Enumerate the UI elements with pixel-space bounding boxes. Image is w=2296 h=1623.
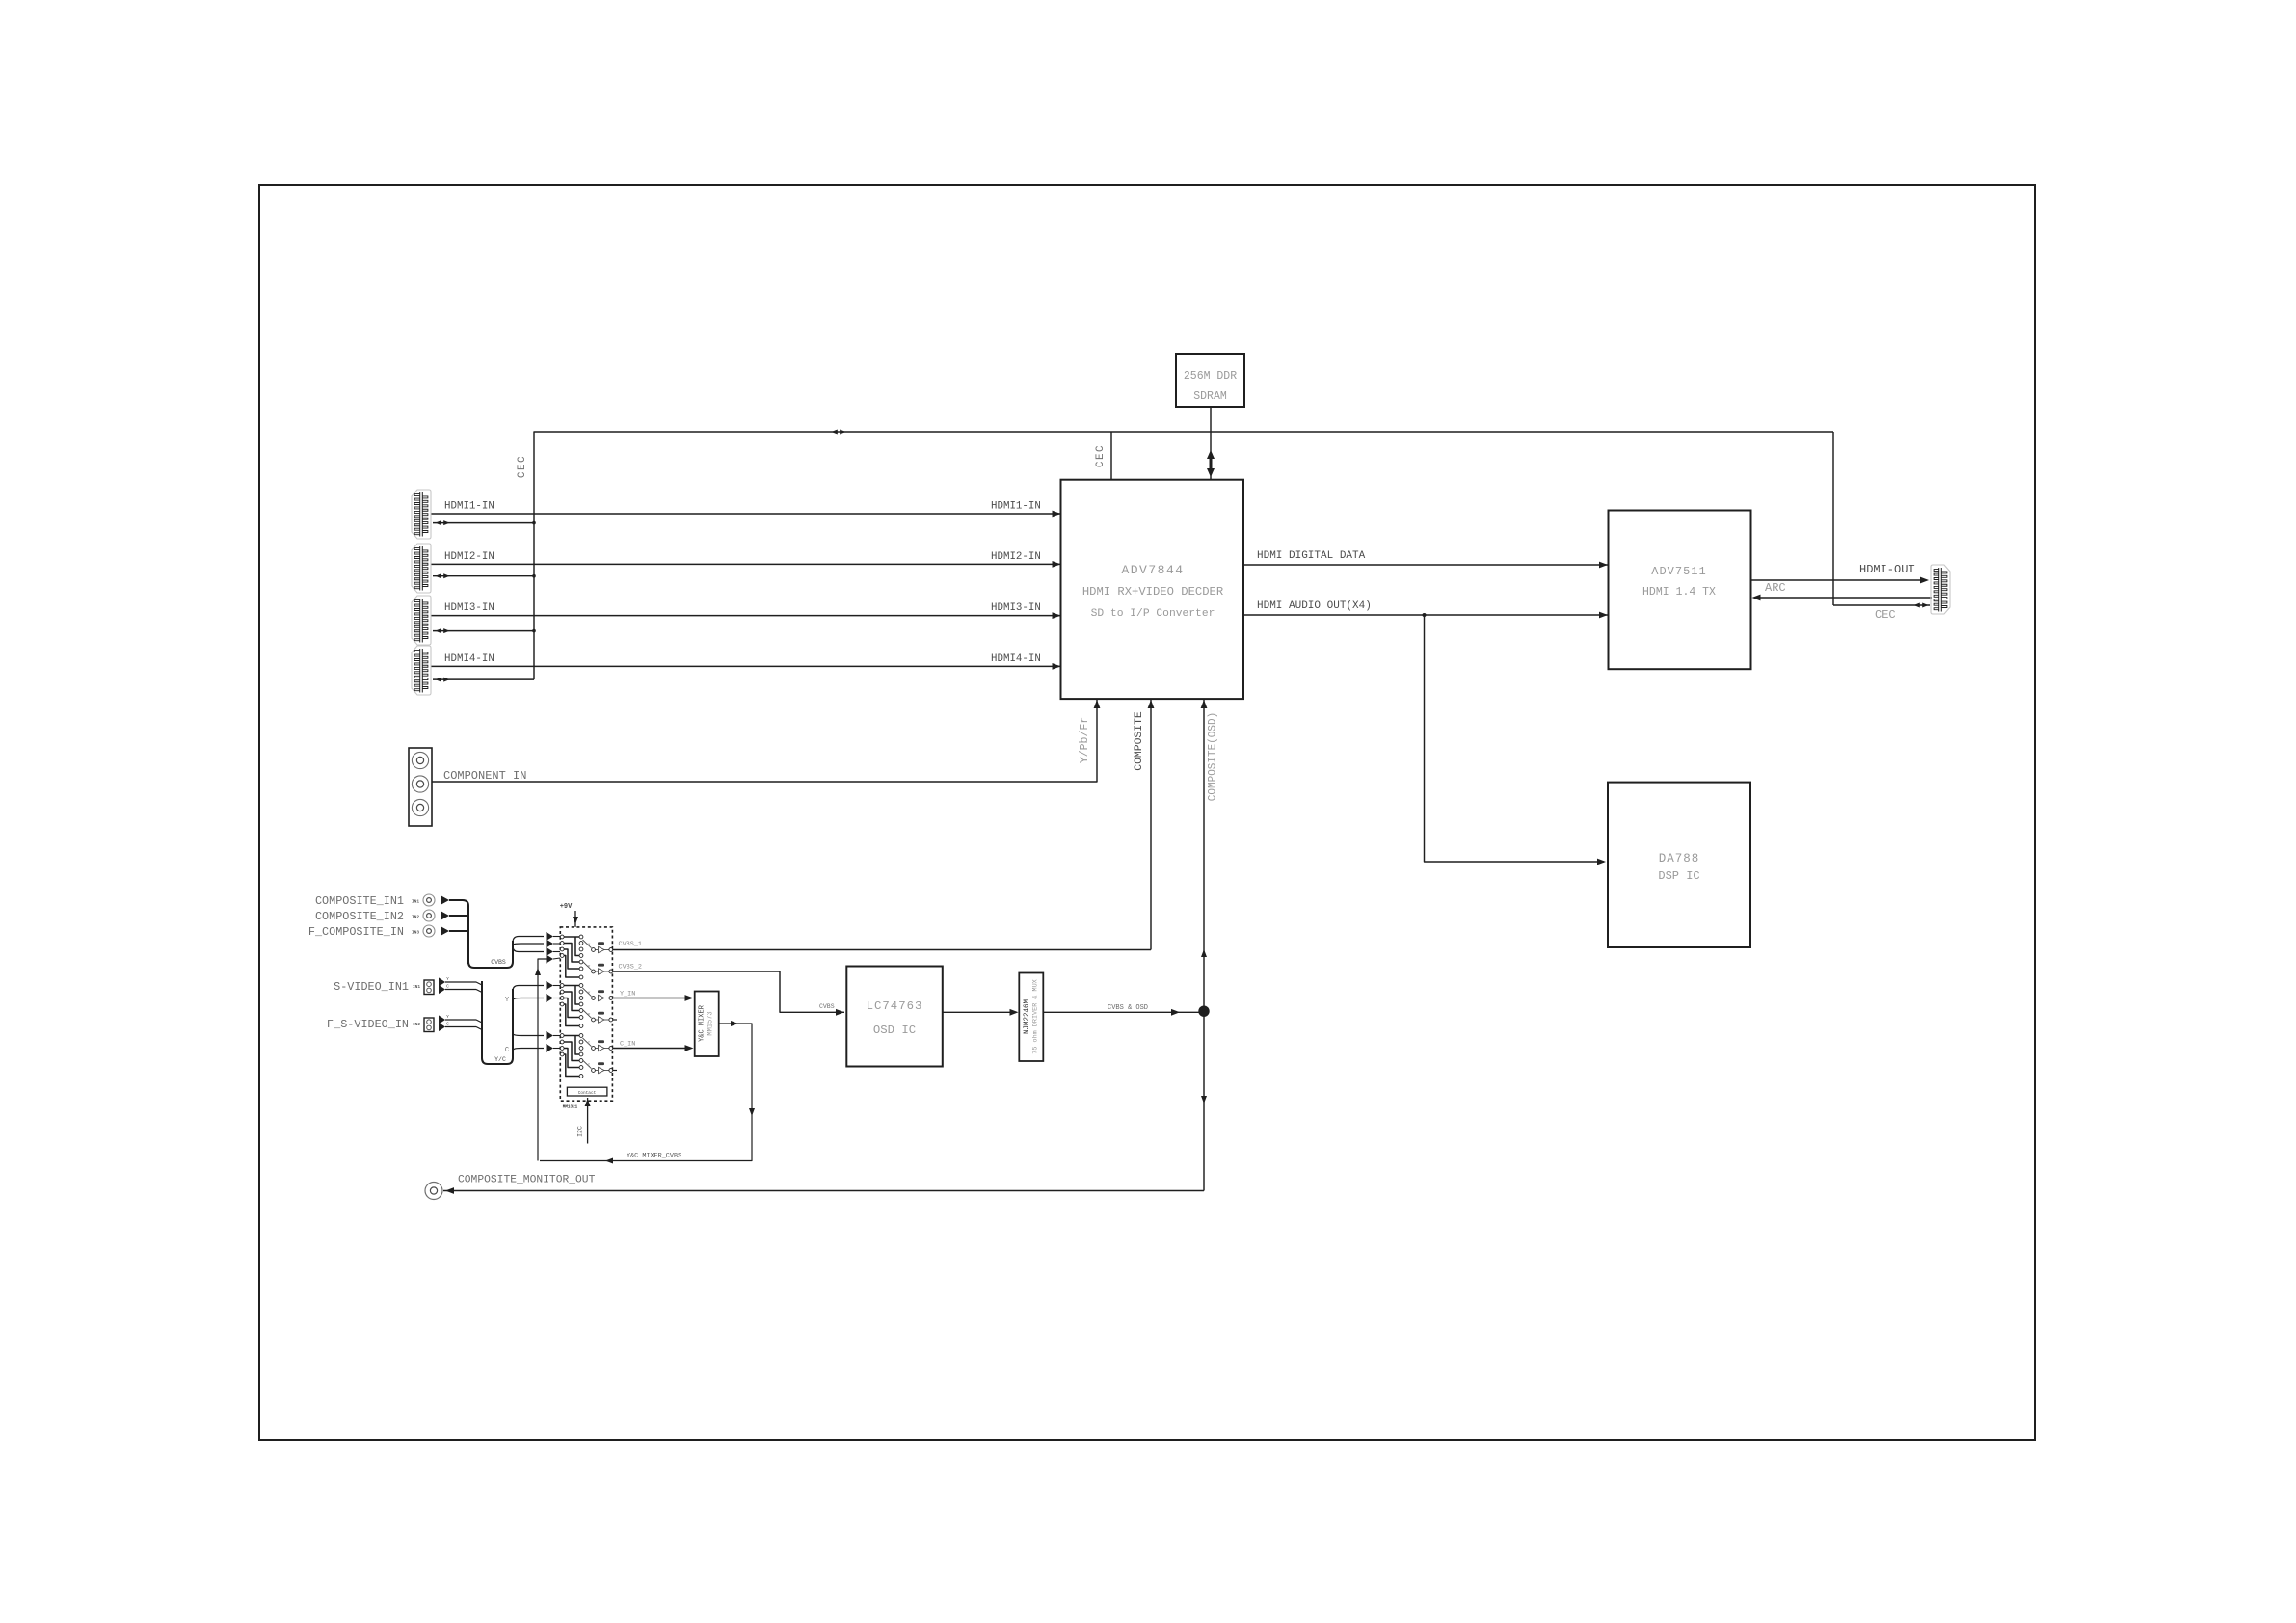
matrix group 3 C [560,1034,564,1038]
wire CVBS_2 [613,971,835,1012]
svg-text:HDMI2-IN: HDMI2-IN [991,551,1041,563]
wire SDRAM to ADV7844 memory bus [1210,407,1212,479]
bidirectional arrow CEC out [1914,603,1920,608]
svg-text:Y/C: Y/C [494,1056,506,1063]
svg-text:Y: Y [446,1014,449,1020]
svg-text:C: C [446,984,449,990]
switch Y [583,988,592,997]
switch C [583,1060,592,1069]
wire HDMI-OUT [1751,579,1926,581]
svg-text:Y&C MIXER_CVBS: Y&C MIXER_CVBS [627,1153,681,1160]
junction CEC bus J1 [532,521,536,525]
matrix group 2 Y [560,984,564,988]
bidirectional arrow CEC J2 [436,573,441,578]
svg-text:DSP IC: DSP IC [1658,869,1699,883]
svg-text:Y: Y [446,976,449,982]
svg-text:HDMI4-IN: HDMI4-IN [991,653,1041,665]
wire C_IN [613,1048,691,1050]
svg-text:Y_IN: Y_IN [620,990,635,998]
buffer CVBS input 3 [547,947,554,956]
connector J4 HDMI4-IN [412,646,431,695]
connector F_COMPOSITE_IN RCA jack [423,925,435,937]
svg-text:CVBS: CVBS [491,959,506,966]
buffer CVBS input 1 [547,932,554,941]
wire COMPONENT IN to ADV7844 [432,700,1097,782]
wire OSD junction to monitor line [1203,1011,1205,1190]
wire CEC to HDMI-OUT [1833,604,1930,606]
wire HDMI1-IN signal [432,513,1061,515]
connector J6 COMPONENT IN [409,748,432,826]
svg-text:HDMI3-IN: HDMI3-IN [444,602,494,614]
wire HDMI DIGITAL DATA [1243,564,1608,566]
svg-text:MM1573: MM1573 [707,1011,715,1035]
buffer Y/C input [547,1031,554,1040]
svg-text:OSD IC: OSD IC [873,1024,916,1037]
wire COMPOSITE_IN1 to CVBS bus [449,900,468,964]
junction CVBS&OSD node [1198,1006,1209,1017]
wire CEC into ADV7844 [1110,432,1112,479]
buffer F_COMPOSITE_IN [441,926,450,935]
svg-text:C: C [505,1047,509,1054]
svg-text:ADV7844: ADV7844 [1121,563,1184,577]
block SW1 input switch matrix (dashed) [560,927,612,1101]
wire ARC [1760,597,1932,599]
svg-text:CEC: CEC [1875,608,1896,622]
svg-text:F_COMPOSITE_IN: F_COMPOSITE_IN [308,925,404,939]
wire OSD to driver [943,1011,1015,1013]
buffer F_S-VIDEO_IN Y [439,1015,445,1024]
wire Y&C mixer output feedback [540,1024,752,1161]
wires matrix crossbar [564,985,579,987]
wire Y_IN [613,998,691,999]
svg-text:CEC: CEC [517,455,528,478]
wire I2C control [587,1098,589,1144]
svg-text:IN1: IN1 [413,984,420,990]
svg-text:Y: Y [588,964,591,970]
svg-text:MM1321: MM1321 [563,1104,578,1109]
svg-text:NJM2246M: NJM2246M [1024,999,1031,1035]
svg-text:+9V: +9V [560,903,573,911]
svg-text:Y: Y [588,943,591,948]
svg-text:S-VIDEO_IN1: S-VIDEO_IN1 [334,980,409,994]
svg-text:Y/Pb/Fr: Y/Pb/Fr [1079,717,1091,763]
switch Y [583,940,592,948]
block U7 NJM2246M 75ohm driver & mux [1019,973,1043,1062]
junction CEC bus J3 [532,629,536,633]
buffer Y/C input [547,1044,554,1052]
svg-text:COMPOSITE_MONITOR_OUT: COMPOSITE_MONITOR_OUT [458,1175,596,1186]
connector J5 HDMI-OUT [1931,565,1950,614]
wire S-VIDEO_IN1 C to Y/C bus [445,990,482,993]
bus Y/C fan-out [513,986,544,1051]
bus CVBS thick U-path [468,941,513,968]
wire CVBS_1 [613,949,1151,951]
svg-text:COMPOSITE_IN2: COMPOSITE_IN2 [315,910,404,923]
svg-text:IN3: IN3 [412,930,419,936]
wire HDMI3-IN CEC stub [433,630,534,632]
buffer CVBS input 2 [547,939,554,947]
svg-text:I2C: I2C [577,1126,584,1137]
svg-text:F_S-VIDEO_IN: F_S-VIDEO_IN [327,1018,409,1031]
connector J3 HDMI3-IN [412,596,431,645]
svg-text:COMPOSITE_IN1: COMPOSITE_IN1 [315,894,404,908]
buffer COMPOSITE_IN2 [441,911,450,919]
svg-text:HDMI4-IN: HDMI4-IN [444,653,494,665]
wire CVBS & OSD output [1043,1011,1198,1013]
svg-text:ADV7511: ADV7511 [1651,565,1706,578]
buffer feedback CVBS input 4 [547,954,554,963]
wire F_S-VIDEO_IN Y to Y/C bus [445,1020,482,1023]
svg-text:CVBS: CVBS [819,1003,835,1010]
bidirectional arrow CEC J4 [436,678,441,682]
wire HDMI AUDIO OUT(X4) [1243,614,1608,616]
wires matrix crossbar [564,1035,579,1037]
wire HDMI4-IN CEC stub [433,678,534,680]
svg-text:CVBS_2: CVBS_2 [619,964,642,971]
connector S-VIDEO_IN1 mini-DIN [424,980,434,995]
block Contact (switch control) [567,1087,607,1096]
block U2 ADV7511 HDMI 1.4 TX [1609,511,1751,670]
svg-text:IN2: IN2 [413,1022,420,1027]
connector COMPOSITE_IN1 RCA jack [423,894,435,906]
bidirectional arrow CEC bus [832,430,838,435]
svg-text:COMPONENT IN: COMPONENT IN [443,769,526,783]
wire COMPOSITE(OSD) pin [1203,700,1205,1011]
svg-text:COMPOSITE(OSD): COMPOSITE(OSD) [1208,712,1219,801]
wire F_COMPOSITE_IN to CVBS bus [449,930,468,932]
switch Y [583,962,592,971]
svg-text:HDMI AUDIO OUT(X4): HDMI AUDIO OUT(X4) [1257,600,1372,612]
svg-text:C: C [588,1063,591,1069]
buffer S-VIDEO_IN1 C [439,985,445,994]
junction audio branch [1423,613,1427,617]
svg-text:SDRAM: SDRAM [1193,390,1227,403]
buffer COMPOSITE_IN1 [441,895,450,904]
svg-text:HDMI1-IN: HDMI1-IN [991,501,1041,513]
svg-text:IN2: IN2 [412,915,419,920]
connector J7 COMPOSITE_MONITOR_OUT RCA jack [425,1183,442,1200]
switch C [583,1038,592,1047]
svg-text:HDMI 1.4 TX: HDMI 1.4 TX [1642,586,1716,599]
wire HDMI2-IN CEC stub [433,575,534,577]
wire HDMI1-IN CEC stub [433,522,534,524]
wire matrix stub 3 [613,1070,617,1072]
bus CVBS fan-out [513,937,544,952]
svg-text:HDMI DIGITAL DATA: HDMI DIGITAL DATA [1257,550,1366,562]
svg-text:C_IN: C_IN [620,1040,635,1048]
switch Y [583,1010,592,1019]
buffer Y/C input [547,994,554,1002]
svg-text:CVBS & OSD: CVBS & OSD [1108,1004,1148,1012]
buffer Y/C input [547,981,554,990]
wire Y&C mixer feedback into matrix [538,959,547,1161]
wire audio branch to DA788 [1425,615,1605,862]
svg-text:HDMI RX+VIDEO DECDER: HDMI RX+VIDEO DECDER [1082,585,1223,599]
wire CEC bus horizontal [534,432,1833,523]
wires matrix crossbar [564,936,579,938]
wire HDMI2-IN signal [432,563,1061,565]
buffer F_S-VIDEO_IN C [439,1023,445,1031]
connector J2 HDMI2-IN [412,544,431,593]
bidirectional arrow CEC J1 [436,520,441,525]
wire HDMI4-IN signal [432,665,1061,667]
block U1 ADV7844 HDMI RX + video decoder [1061,480,1244,699]
svg-text:CEC: CEC [1095,444,1107,467]
svg-text:HDMI3-IN: HDMI3-IN [991,602,1041,614]
svg-text:Y: Y [588,1012,591,1018]
connector F_S-VIDEO_IN mini-DIN [424,1018,434,1032]
buffer S-VIDEO_IN1 Y [439,977,445,986]
block U4 Y&C MIXER [695,992,719,1057]
wire F_S-VIDEO_IN C to Y/C bus [445,1027,482,1030]
wire COMPOSITE pin [1150,700,1152,950]
matrix group 1 CVBS [560,935,564,939]
block U5 LC74763 OSD IC [846,967,943,1067]
svg-text:256M DDR: 256M DDR [1184,370,1237,383]
svg-text:Y&C MIXER: Y&C MIXER [699,1004,707,1042]
block U3 256M DDR SDRAM [1176,354,1244,407]
wire S-VIDEO_IN1 Y to Y/C bus [445,982,482,985]
svg-text:HDMI2-IN: HDMI2-IN [444,551,494,563]
svg-text:SD to I/P Converter: SD to I/P Converter [1091,608,1215,620]
svg-text:COMPOSITE: COMPOSITE [1134,711,1145,771]
svg-text:HDMI1-IN: HDMI1-IN [444,501,494,513]
wire COMPOSITE_MONITOR_OUT [443,1190,1204,1192]
bidirectional arrow CEC J3 [436,628,441,633]
bus Y/C thick U-path [482,981,513,1064]
wire matrix stub 2 [613,1019,617,1021]
svg-text:ARC: ARC [1765,581,1786,595]
wire CEC bus right vertical [1832,432,1834,605]
svg-text:HDMI-OUT: HDMI-OUT [1859,563,1915,576]
connector COMPOSITE_IN2 RCA jack [423,910,435,921]
svg-text:Contact: Contact [578,1091,597,1096]
bidirectional arrow memory bus [1210,453,1213,474]
svg-text:C: C [446,1022,449,1027]
svg-text:Y: Y [588,991,591,997]
svg-text:LC74763: LC74763 [867,999,923,1013]
block U6 DA788 DSP IC [1608,783,1750,947]
svg-text:CVBS_1: CVBS_1 [619,941,642,948]
connector J1 HDMI1-IN [412,490,431,539]
svg-text:C: C [588,1041,591,1047]
wire COMPOSITE_IN2 to CVBS bus [449,915,468,917]
junction CEC bus J2 [532,574,536,578]
wire HDMI3-IN signal [432,615,1061,617]
wire CEC bus left vertical to HDMI inputs [533,523,535,680]
svg-text:75 ohm DRIVER & MUX: 75 ohm DRIVER & MUX [1032,979,1040,1054]
svg-text:IN1: IN1 [412,899,419,905]
svg-text:DA788: DA788 [1659,852,1700,865]
